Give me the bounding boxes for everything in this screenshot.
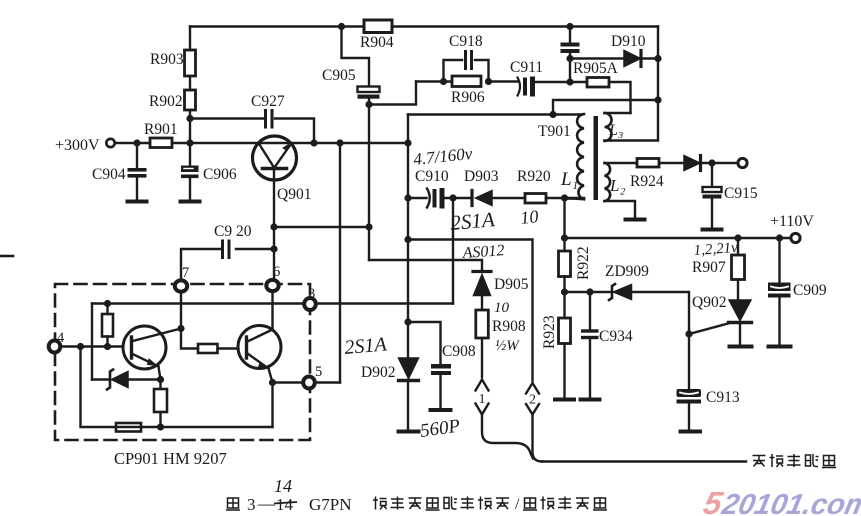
svg-text:/: / xyxy=(515,496,520,513)
wire +110V rail xyxy=(565,237,791,239)
resistor Rd (IC bottom) xyxy=(116,423,141,432)
ground R923 end bar xyxy=(555,398,574,402)
wire zener to Q902 gate node xyxy=(632,292,690,334)
svg-text:+110V: +110V xyxy=(770,213,814,230)
node C918 left junction xyxy=(440,78,447,85)
node T901 primary bottom tap xyxy=(561,194,568,201)
svg-text:R905A: R905A xyxy=(573,60,619,77)
wire zener row xyxy=(565,291,612,293)
wire R906 row left xyxy=(416,80,452,82)
label 行逆程脉冲 horizontal retrace pulse (approximated glyphs) xyxy=(753,454,837,468)
resistor R904 xyxy=(364,20,392,33)
svg-text:C911: C911 xyxy=(510,59,543,76)
svg-text:R920: R920 xyxy=(517,168,551,185)
svg-text:—: — xyxy=(257,494,276,513)
svg-text:5: 5 xyxy=(315,364,322,380)
svg-text:Q902: Q902 xyxy=(692,294,726,311)
svg-text:1: 1 xyxy=(479,392,486,407)
svg-text:AS012: AS012 xyxy=(461,242,505,262)
capacitor C907 (unlabeled, above D910) xyxy=(561,27,580,59)
wire R903 column xyxy=(189,27,191,202)
capacitor C906 xyxy=(181,166,199,179)
svg-text:7: 7 xyxy=(182,265,189,281)
left margin dash mark xyxy=(1,255,13,258)
svg-text:D905: D905 xyxy=(494,276,529,293)
ground C913 end bar xyxy=(681,430,701,434)
svg-text:+300V: +300V xyxy=(55,137,100,154)
ground C934 end bar xyxy=(581,398,600,402)
resistor R908 xyxy=(476,310,489,377)
wire pin4 rail down and bottom run xyxy=(81,347,273,428)
pin 6 xyxy=(266,280,278,291)
wire diode to terminal xyxy=(701,162,738,164)
node D910 right junction xyxy=(654,55,661,62)
watermark 520101.com xyxy=(700,485,861,516)
svg-text:R908: R908 xyxy=(492,318,526,335)
node R903-column +300V junction xyxy=(186,139,193,146)
IC CP901 dashed box xyxy=(55,284,310,440)
wire IC left rail xyxy=(91,304,93,380)
capacitor C915 xyxy=(703,163,722,229)
resistor R906 xyxy=(452,76,481,87)
capacitor C909 xyxy=(768,238,791,346)
diode D903 xyxy=(472,191,492,206)
svg-text:C927: C927 xyxy=(251,93,285,110)
svg-text:C904: C904 xyxy=(92,166,126,183)
svg-text:T901: T901 xyxy=(538,123,571,140)
terminal +300V input xyxy=(106,139,114,147)
wire C905 drop zigzag xyxy=(342,27,370,87)
thyristor Q902 xyxy=(689,300,752,346)
node C934 tap xyxy=(586,288,593,295)
svg-text:R904: R904 xyxy=(360,34,394,51)
node R902 bottom / C927 row junction xyxy=(186,115,193,122)
node C927 right drop junction xyxy=(310,139,317,146)
node QA collector junction xyxy=(177,325,184,332)
ground Q902 end bar xyxy=(730,345,752,349)
svg-text:R922: R922 xyxy=(575,246,592,280)
node Q901 emitter row junction xyxy=(270,223,277,230)
capacitor C908 xyxy=(431,364,451,410)
wire x570 vertical xyxy=(569,59,571,83)
svg-text:3: 3 xyxy=(247,495,256,514)
wire +300V rail xyxy=(115,142,408,144)
node pin5 rail top junction xyxy=(336,139,343,146)
svg-text:D910: D910 xyxy=(611,33,646,50)
resistor R901 xyxy=(150,138,172,148)
svg-text:C909: C909 xyxy=(793,282,827,299)
wire pin5 to x340 rail xyxy=(315,381,340,383)
svg-text:2S1A: 2S1A xyxy=(449,207,495,235)
wire to C908 xyxy=(408,322,441,364)
node Ra bottom junction xyxy=(104,343,111,350)
diode D910 xyxy=(624,51,641,67)
wire R924 to diode xyxy=(659,162,684,164)
capacitor C905 xyxy=(358,87,380,99)
svg-text:L₁: L₁ xyxy=(560,169,578,190)
node C920 tap xyxy=(270,245,277,252)
svg-text:C906: C906 xyxy=(203,166,237,183)
svg-text:C913: C913 xyxy=(706,389,740,406)
wire emitter row y227 xyxy=(274,226,369,228)
transistor QB xyxy=(238,326,281,383)
node snubber top edge junction xyxy=(549,111,556,118)
node C915 tap xyxy=(708,159,715,166)
svg-text:C918: C918 xyxy=(449,33,483,50)
capacitor C904 xyxy=(128,143,147,201)
wire L3 stubs xyxy=(605,113,631,141)
svg-text:3: 3 xyxy=(308,286,315,302)
wire C911 to R905A xyxy=(536,81,587,83)
wire pin4 input xyxy=(59,345,123,347)
wire snubber rect top edge xyxy=(408,113,582,115)
svg-text:R923: R923 xyxy=(541,315,558,349)
wire pin5 link xyxy=(273,381,304,383)
wire T901 tap down to +110V rail xyxy=(563,198,565,238)
wire QB emitter to bottom rail xyxy=(271,383,273,428)
svg-text:2: 2 xyxy=(529,393,536,408)
resistor R923 xyxy=(559,292,571,399)
node C910-D903 junction xyxy=(449,194,456,201)
node Rc bottom junction xyxy=(157,423,164,430)
wire y100 link xyxy=(553,100,658,115)
wire snubber bottom row y198 xyxy=(408,197,584,199)
node +110V rail left junction xyxy=(561,234,568,241)
transistor QA xyxy=(123,326,181,380)
transformer T901 core xyxy=(594,116,599,200)
svg-text:14: 14 xyxy=(276,495,294,514)
node emitter row right junction xyxy=(365,223,372,230)
svg-text:1,2,21v: 1,2,21v xyxy=(693,240,739,259)
capacitor C910 xyxy=(427,188,445,209)
resistor R920 xyxy=(525,194,546,204)
svg-text:D902: D902 xyxy=(361,364,395,381)
wire C920 row xyxy=(181,249,274,280)
wire D903 tap down to pin3 row xyxy=(452,198,454,304)
node D910 row left junction xyxy=(566,55,573,62)
transistor Q901 xyxy=(253,136,297,227)
svg-text:D903: D903 xyxy=(464,168,499,185)
node Ra top junction xyxy=(104,300,111,307)
svg-text:R906: R906 xyxy=(451,89,485,106)
node C909 tap xyxy=(776,234,783,241)
node C904 tap xyxy=(133,139,140,146)
resistor R903 xyxy=(185,50,196,76)
wire L2 top stub to R924 xyxy=(605,162,638,164)
resistor R902 xyxy=(185,90,196,110)
wire L2 bottom stub xyxy=(605,201,636,219)
svg-text:C934: C934 xyxy=(599,328,633,345)
wire connector2 tail to pulse line xyxy=(533,415,543,462)
resistor R907 xyxy=(732,238,745,300)
svg-text:14: 14 xyxy=(274,476,292,496)
svg-text:ZD909: ZD909 xyxy=(605,263,649,280)
zener diode ZD909 xyxy=(609,284,632,300)
wire connector1 tail xyxy=(482,415,533,459)
wire R906 to C911 xyxy=(489,80,519,82)
resistor R922 xyxy=(559,238,571,292)
node snubber left-edge +300V junction xyxy=(404,139,411,146)
pin 4 xyxy=(49,341,61,353)
svg-text:20101.com: 20101.com xyxy=(718,488,861,516)
resistor Ra (IC top left) xyxy=(102,304,113,347)
capacitor C911 xyxy=(518,77,536,97)
wire R905A to L3 top xyxy=(609,82,631,113)
svg-text:CP901 HM 9207: CP901 HM 9207 xyxy=(114,449,227,468)
ground C906 end bar xyxy=(181,200,200,204)
ground C909 end bar xyxy=(769,345,791,349)
svg-text:C915: C915 xyxy=(724,185,758,202)
svg-text:6: 6 xyxy=(273,264,280,280)
svg-text:4: 4 xyxy=(57,330,65,346)
ground D902 end bar xyxy=(399,430,419,434)
node C918 right junction xyxy=(485,78,492,85)
node zener row left junction xyxy=(561,288,568,295)
svg-text:R902: R902 xyxy=(149,93,183,110)
node R907 tap xyxy=(734,234,741,241)
node pin4 rail junction xyxy=(77,343,84,350)
svg-text:C905: C905 xyxy=(322,67,356,84)
svg-text:½W: ½W xyxy=(495,338,520,354)
terminal +110V output xyxy=(791,233,800,242)
transformer T901 primary winding L1 xyxy=(577,114,584,199)
node QA emitter junction xyxy=(157,376,164,383)
wire emitter node to D905 xyxy=(369,260,482,271)
connector 2 xyxy=(526,383,539,415)
node snubber bottom-left junction xyxy=(404,194,411,201)
svg-text:C908: C908 xyxy=(442,343,476,360)
wire pin7 column xyxy=(181,292,198,349)
node top rail / C905 drop junction xyxy=(338,23,345,30)
svg-text:R924: R924 xyxy=(630,173,664,190)
svg-text:R901: R901 xyxy=(144,121,178,138)
zener diode DZ (IC) xyxy=(92,370,161,390)
wire pin5 rail x340 xyxy=(339,143,341,383)
wire C905 node down to emitter node (crosses +300V rail) xyxy=(368,105,370,261)
resistor R924 xyxy=(637,159,659,168)
node Q902 gate junction xyxy=(685,330,692,337)
wire snubber rect left edge xyxy=(407,115,409,199)
wire pin3 row xyxy=(92,302,453,304)
svg-text:10: 10 xyxy=(519,206,539,228)
transformer T901 winding L2 xyxy=(605,163,611,201)
wire C918 loop xyxy=(444,60,489,82)
node QB emitter junction xyxy=(269,379,276,386)
svg-text:10: 10 xyxy=(494,300,510,316)
node AS012 wire tap xyxy=(404,236,411,243)
ground L2 end bar xyxy=(626,218,645,222)
capacitor C920 xyxy=(223,241,230,258)
svg-text:C9 20: C9 20 xyxy=(214,223,252,240)
diode D902 xyxy=(399,358,419,431)
svg-text:L₂: L₂ xyxy=(609,176,625,195)
caption CJK text 机芯的遥控电源及开/关机电路 (approximated glyphs) xyxy=(373,496,607,513)
svg-text:L₃: L₃ xyxy=(608,122,623,139)
node x658 y100 junction xyxy=(654,96,661,103)
wire pin6 column xyxy=(271,292,273,330)
wire right rail x658 xyxy=(611,27,658,141)
node y322 tap xyxy=(404,318,411,325)
pin 3 xyxy=(304,298,316,310)
diode D905 xyxy=(473,272,491,311)
ground C904 end bar xyxy=(128,200,147,204)
wire C927 row xyxy=(190,119,314,144)
wire C905 to R906 row xyxy=(369,82,416,105)
svg-text:R907: R907 xyxy=(692,259,726,276)
resistor Rc (QA emitter) xyxy=(154,380,167,428)
capacitor C934 xyxy=(581,292,599,399)
transformer T901 winding L3 xyxy=(605,113,612,141)
wire emitter down to pin6 xyxy=(273,227,275,280)
wire AS012 net to connector 2 xyxy=(408,240,533,382)
wire horizontal retrace pulse line xyxy=(542,460,746,462)
svg-text:Q901: Q901 xyxy=(277,186,311,203)
resistor R905A xyxy=(587,78,609,88)
pin 5 xyxy=(303,377,315,389)
svg-text:R903: R903 xyxy=(150,51,184,68)
diode D924 (unlabeled) xyxy=(684,156,701,171)
ground C915 end bar xyxy=(703,228,722,232)
wire L1 bottom stub xyxy=(565,197,585,200)
terminal secondary output xyxy=(738,158,747,167)
wire D910 row xyxy=(570,57,658,59)
svg-text:G7PN: G7PN xyxy=(309,495,352,514)
caption 图 3-14 G7PN xyxy=(226,494,352,514)
connector 1 xyxy=(476,380,489,415)
ground C908 end bar xyxy=(431,408,451,412)
node top rail / C907 drop junction xyxy=(566,23,573,30)
capacitor C927 xyxy=(266,111,273,128)
svg-text:2S1A: 2S1A xyxy=(344,333,389,359)
capacitor C918 xyxy=(466,52,472,69)
node C905 bottom junction xyxy=(365,101,372,108)
svg-text:C910: C910 xyxy=(415,168,449,185)
node x570 R906-row junction xyxy=(566,78,573,85)
wire top rail xyxy=(190,25,658,27)
pin 7 xyxy=(175,280,187,291)
wire snubber edge down D902 column xyxy=(407,198,409,357)
resistor Rb (QB base) xyxy=(198,344,238,353)
capacitor C913 xyxy=(677,334,702,431)
